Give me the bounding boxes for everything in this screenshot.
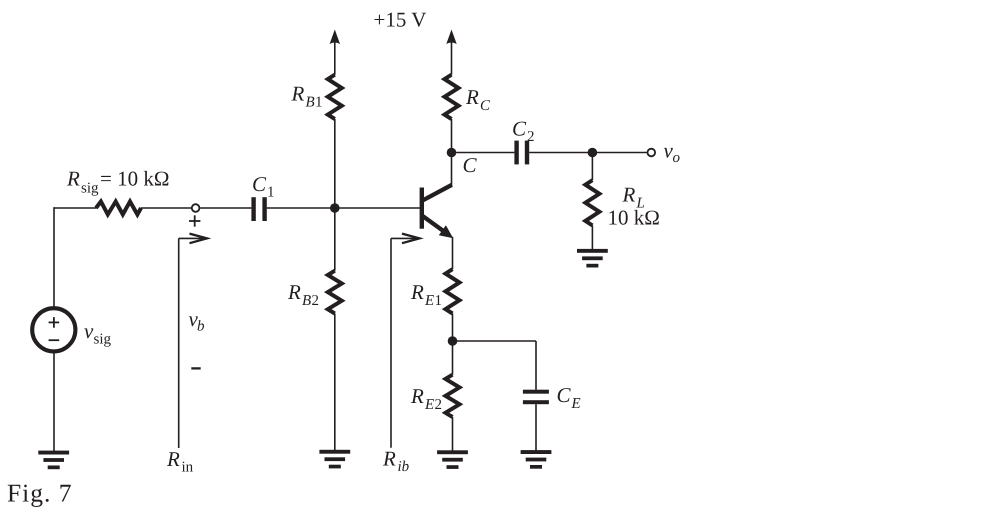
- minus sign below vb: [191, 367, 200, 369]
- ground: [319, 450, 350, 469]
- svg-text:E: E: [424, 397, 434, 413]
- svg-text:R: R: [410, 280, 424, 304]
- wire: [591, 153, 593, 181]
- plus sign in source: [49, 317, 60, 328]
- svg-text:ib: ib: [398, 459, 410, 475]
- Rib arrow: [391, 234, 420, 448]
- resistor RE2: [446, 375, 460, 417]
- resistor Rsig: [96, 202, 141, 215]
- source Vsig: [32, 308, 75, 351]
- svg-text:10 kΩ: 10 kΩ: [608, 206, 660, 230]
- svg-text:C: C: [480, 98, 491, 114]
- label vsig: [84, 319, 112, 348]
- ground: [521, 450, 552, 469]
- label C1: [252, 172, 275, 201]
- svg-text:R: R: [287, 280, 301, 304]
- node B junction dot: [330, 203, 340, 213]
- resistor RB1: [328, 75, 342, 119]
- wire: [53, 207, 55, 306]
- wire: [452, 417, 454, 451]
- capacitor C1: [251, 197, 266, 221]
- label RL: [622, 183, 645, 212]
- svg-text:sig: sig: [81, 181, 99, 197]
- ground: [38, 451, 69, 470]
- svg-text:B: B: [302, 293, 311, 309]
- svg-text:b: b: [197, 319, 205, 335]
- wire: [54, 207, 97, 209]
- wire: [141, 207, 192, 209]
- svg-text:v: v: [84, 319, 94, 343]
- wire: [453, 340, 537, 342]
- wire: [591, 225, 593, 249]
- resistor RL: [585, 180, 599, 225]
- label RE2: [410, 384, 442, 413]
- wire: [529, 152, 647, 154]
- ground: [437, 450, 468, 469]
- wire: [334, 119, 336, 271]
- svg-text:+15 V: +15 V: [374, 8, 427, 32]
- label vb: [189, 307, 206, 335]
- capacitor C2: [514, 141, 529, 165]
- node C junction dot: [447, 148, 457, 158]
- svg-text:R: R: [382, 447, 396, 471]
- svg-text:C: C: [252, 172, 267, 196]
- svg-text:1: 1: [435, 293, 443, 309]
- +15V supply arrow: [330, 30, 340, 75]
- svg-text:C: C: [512, 116, 527, 140]
- svg-text:R: R: [166, 447, 180, 471]
- transistor Q1 collector stroke: [422, 185, 452, 201]
- wire: [452, 152, 515, 154]
- wire: [535, 404, 537, 450]
- wire: [452, 314, 454, 375]
- node at RL junction dot: [588, 148, 598, 158]
- label Rin: [166, 447, 194, 476]
- Rin arrow: [179, 234, 207, 448]
- wire: [267, 207, 420, 209]
- output terminal circle: [648, 149, 656, 157]
- label RC: [465, 85, 491, 114]
- label vo: [664, 139, 681, 167]
- svg-text:2: 2: [435, 397, 443, 413]
- label CE: [557, 383, 581, 412]
- svg-text:in: in: [182, 460, 194, 476]
- node (open terminal at base input): [192, 204, 200, 212]
- label RE1: [410, 280, 442, 309]
- wire: [535, 341, 537, 390]
- capacitor CE: [523, 390, 549, 405]
- svg-text:1: 1: [267, 185, 275, 201]
- wire: [334, 314, 336, 451]
- svg-text:C: C: [557, 383, 572, 407]
- label RB2: [287, 280, 319, 309]
- +15V supply arrow: [446, 30, 456, 75]
- plus sign below node: [189, 215, 200, 226]
- svg-text:o: o: [673, 150, 681, 166]
- label C2: [512, 116, 535, 145]
- svg-text:E: E: [424, 293, 434, 309]
- svg-text:R: R: [465, 85, 479, 109]
- svg-text:= 10 kΩ: = 10 kΩ: [100, 167, 169, 191]
- label Rsig = 10 kOhm: [66, 167, 169, 197]
- wire: [452, 237, 454, 269]
- svg-text:sig: sig: [94, 332, 112, 348]
- svg-text:C: C: [463, 153, 478, 177]
- wire: [199, 207, 251, 209]
- svg-text:1: 1: [315, 95, 323, 111]
- transistor Q1 emitter stroke with arrow: [422, 216, 453, 239]
- svg-text:Fig. 7: Fig. 7: [7, 479, 73, 508]
- svg-text:R: R: [291, 82, 305, 106]
- resistor RB2: [328, 271, 342, 314]
- svg-text:2: 2: [527, 129, 535, 145]
- ground: [577, 249, 608, 268]
- label Rib: [382, 447, 410, 476]
- resistor RC: [445, 75, 459, 119]
- svg-text:R: R: [410, 384, 424, 408]
- label RB1: [291, 82, 323, 111]
- transistor Q1 base bar: [420, 188, 424, 229]
- resistor RE1: [446, 269, 460, 313]
- svg-text:B: B: [306, 95, 315, 111]
- svg-text:R: R: [66, 167, 80, 191]
- node E junction dot: [448, 336, 458, 346]
- svg-text:2: 2: [312, 293, 320, 309]
- svg-text:E: E: [571, 396, 581, 412]
- wire: [451, 119, 453, 185]
- wire: [53, 353, 55, 451]
- minus sign in source: [49, 339, 60, 341]
- svg-text:R: R: [622, 183, 636, 207]
